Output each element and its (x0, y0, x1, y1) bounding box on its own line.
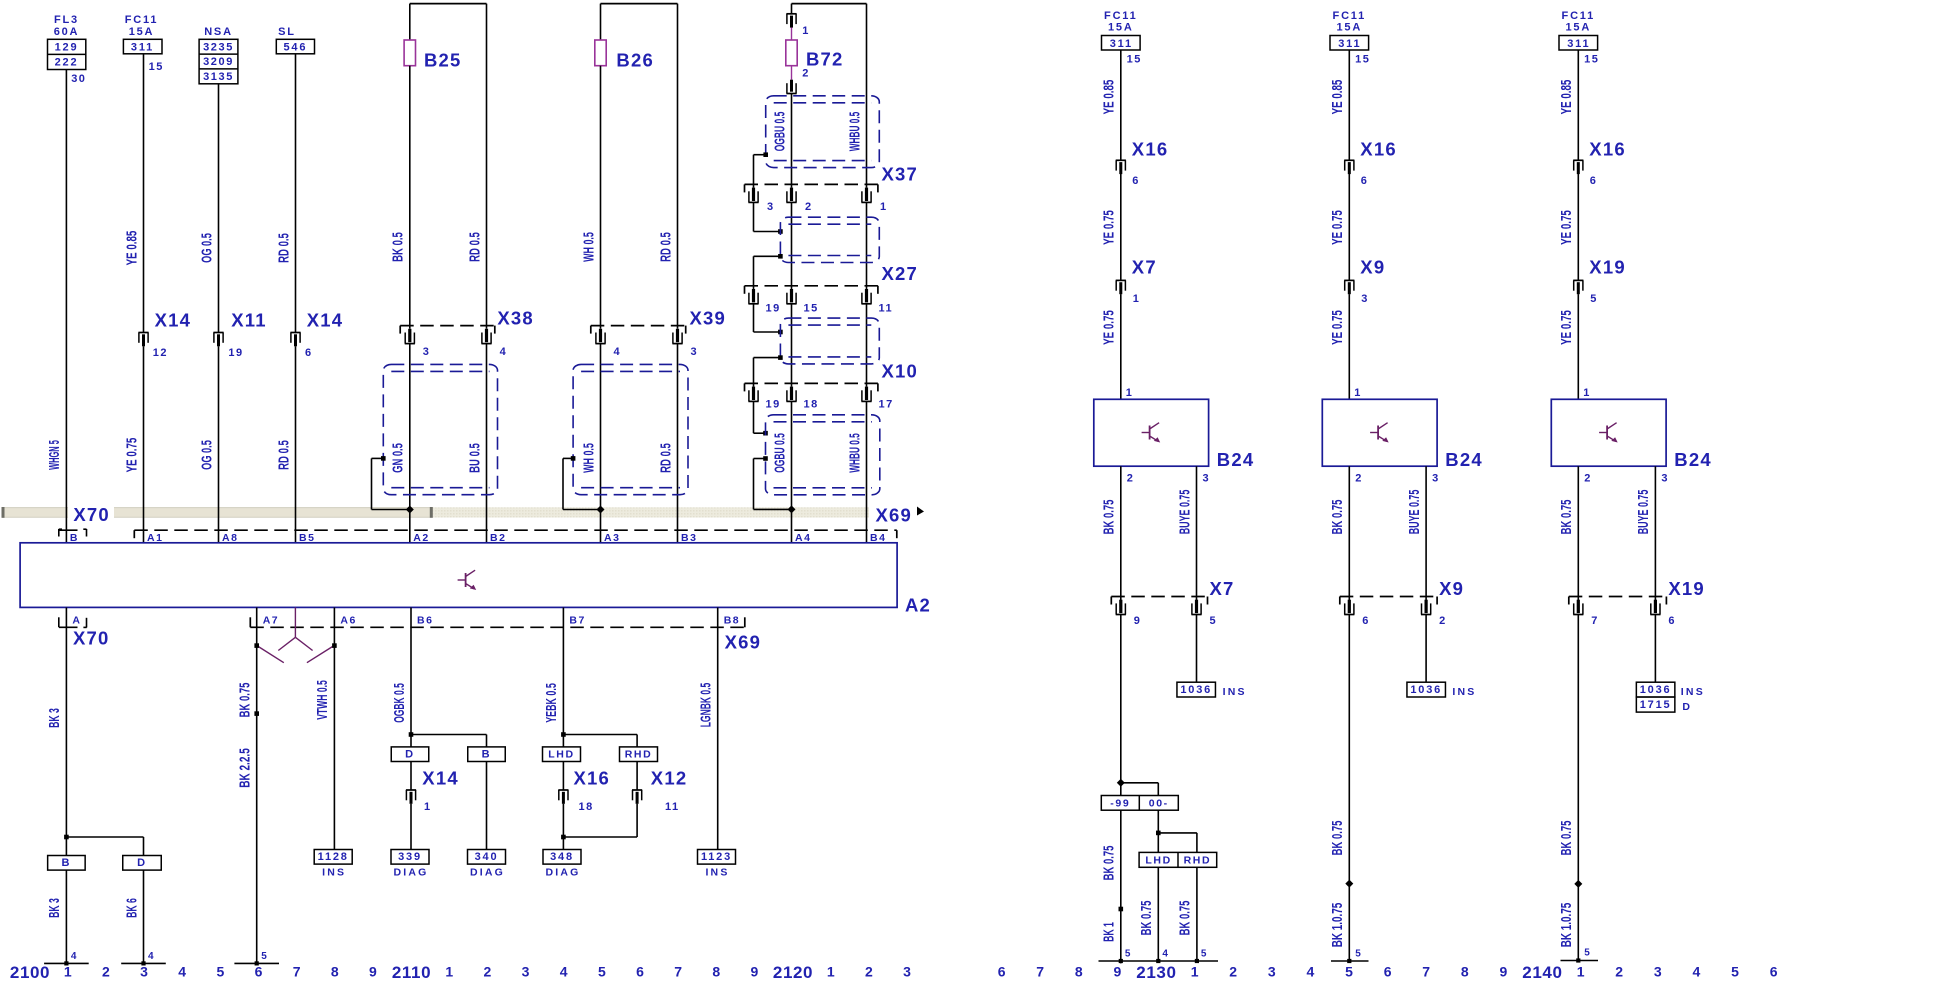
svg-text:WH 0.5: WH 0.5 (580, 443, 597, 473)
svg-text:19: 19 (766, 303, 781, 315)
svg-text:X69: X69 (876, 504, 913, 525)
svg-text:00-: 00- (1149, 798, 1169, 810)
svg-text:8: 8 (331, 964, 340, 980)
svg-text:OG 0.5: OG 0.5 (198, 440, 215, 470)
svg-text:11: 11 (665, 801, 680, 813)
svg-text:5: 5 (1125, 949, 1132, 960)
svg-text:BUYE 0.75: BUYE 0.75 (1176, 490, 1193, 535)
svg-text:DIAG: DIAG (545, 867, 580, 879)
svg-text:2: 2 (1584, 473, 1592, 485)
svg-text:7: 7 (674, 964, 683, 980)
svg-text:VTWH 0.5: VTWH 0.5 (314, 680, 331, 720)
svg-text:2110: 2110 (392, 963, 431, 982)
svg-text:YE 0.85: YE 0.85 (1558, 80, 1575, 115)
svg-text:BK 0.75: BK 0.75 (1177, 901, 1194, 936)
svg-text:1715: 1715 (1640, 699, 1672, 711)
svg-text:1: 1 (1354, 387, 1362, 399)
svg-text:3: 3 (767, 201, 775, 213)
svg-text:9: 9 (1500, 964, 1509, 980)
svg-text:INS: INS (705, 867, 729, 879)
svg-text:19: 19 (228, 347, 243, 359)
svg-text:DIAG: DIAG (470, 867, 505, 879)
svg-text:348: 348 (550, 851, 574, 863)
svg-text:3209: 3209 (203, 56, 234, 68)
svg-text:OGBK 0.5: OGBK 0.5 (391, 683, 408, 723)
svg-text:BK 0.5: BK 0.5 (390, 232, 407, 262)
svg-text:B24: B24 (1445, 449, 1483, 470)
svg-text:3: 3 (1661, 473, 1669, 485)
svg-text:311: 311 (1110, 38, 1133, 50)
svg-text:NSA: NSA (204, 26, 233, 38)
svg-text:X19: X19 (1668, 578, 1705, 599)
svg-text:1: 1 (880, 201, 888, 213)
svg-text:A: A (72, 615, 81, 627)
svg-text:X39: X39 (690, 308, 727, 329)
svg-text:3: 3 (522, 964, 531, 980)
svg-text:18: 18 (804, 399, 819, 411)
svg-text:RHD: RHD (625, 749, 653, 761)
svg-text:YE 0.75: YE 0.75 (123, 438, 140, 473)
svg-text:B6: B6 (417, 615, 433, 627)
svg-text:D: D (405, 749, 415, 761)
svg-text:FL3: FL3 (54, 14, 79, 26)
svg-text:2120: 2120 (773, 963, 813, 982)
svg-text:3135: 3135 (203, 71, 234, 83)
svg-text:4: 4 (500, 346, 508, 358)
svg-text:8: 8 (712, 964, 721, 980)
svg-text:4: 4 (1307, 964, 1316, 980)
svg-text:X70: X70 (73, 504, 110, 525)
svg-text:15A: 15A (1566, 21, 1592, 33)
svg-text:B8: B8 (724, 615, 740, 627)
svg-text:6: 6 (1590, 175, 1598, 187)
svg-text:6: 6 (1361, 175, 1369, 187)
svg-text:FC11: FC11 (1104, 10, 1138, 22)
svg-text:BK 2.2.5: BK 2.2.5 (237, 748, 254, 788)
svg-text:3235: 3235 (203, 41, 234, 53)
svg-text:RD 0.5: RD 0.5 (275, 440, 292, 470)
svg-text:D: D (137, 857, 147, 869)
svg-text:3: 3 (423, 346, 431, 358)
svg-text:340: 340 (475, 851, 499, 863)
svg-text:15: 15 (804, 303, 819, 315)
svg-text:2140: 2140 (1522, 963, 1562, 982)
svg-text:2: 2 (1615, 964, 1624, 980)
svg-text:6: 6 (255, 964, 264, 980)
svg-text:BUYE 0.75: BUYE 0.75 (1406, 490, 1423, 535)
svg-text:30: 30 (71, 73, 86, 85)
svg-text:YEBK 0.5: YEBK 0.5 (543, 683, 560, 723)
svg-text:BU 0.5: BU 0.5 (466, 443, 483, 473)
svg-text:9: 9 (1134, 615, 1142, 627)
svg-text:311: 311 (131, 42, 154, 54)
svg-text:1036: 1036 (1640, 684, 1672, 696)
svg-text:3: 3 (1203, 473, 1211, 485)
svg-text:2: 2 (802, 68, 810, 80)
svg-text:BK 0.75: BK 0.75 (1138, 901, 1155, 936)
svg-text:LGNBK 0.5: LGNBK 0.5 (698, 683, 715, 728)
svg-text:B26: B26 (616, 50, 654, 71)
svg-text:1: 1 (1126, 387, 1134, 399)
svg-text:6: 6 (1668, 615, 1676, 627)
svg-text:15A: 15A (1337, 21, 1363, 33)
svg-text:19: 19 (766, 399, 781, 411)
svg-text:18: 18 (579, 801, 594, 813)
svg-text:3: 3 (140, 964, 149, 980)
svg-text:RD 0.5: RD 0.5 (275, 233, 292, 263)
svg-text:YE 0.75: YE 0.75 (1101, 310, 1118, 345)
svg-text:YE 0.75: YE 0.75 (1558, 310, 1575, 345)
svg-text:7: 7 (1036, 964, 1045, 980)
svg-text:2: 2 (1127, 473, 1135, 485)
svg-text:BK 0.75: BK 0.75 (1329, 821, 1346, 856)
svg-text:15: 15 (149, 61, 164, 73)
svg-text:5: 5 (1590, 293, 1598, 305)
svg-text:YE 0.75: YE 0.75 (1558, 210, 1575, 245)
svg-text:2: 2 (1229, 964, 1238, 980)
svg-text:4: 4 (560, 964, 569, 980)
svg-text:YE 0.75: YE 0.75 (1101, 210, 1118, 245)
svg-text:1036: 1036 (1410, 684, 1442, 696)
svg-text:3: 3 (1268, 964, 1277, 980)
svg-text:A6: A6 (340, 615, 356, 627)
svg-text:1: 1 (802, 25, 810, 37)
svg-text:2: 2 (1439, 615, 1447, 627)
svg-text:15A: 15A (1108, 21, 1134, 33)
svg-text:X10: X10 (882, 360, 919, 381)
svg-text:X16: X16 (1360, 139, 1397, 160)
svg-text:9: 9 (1114, 964, 1123, 980)
svg-text:A2: A2 (905, 595, 931, 616)
svg-text:1: 1 (445, 964, 454, 980)
svg-text:5: 5 (598, 964, 607, 980)
svg-text:INS: INS (1681, 686, 1705, 698)
svg-text:311: 311 (1338, 38, 1361, 50)
svg-text:2: 2 (805, 201, 813, 213)
svg-text:5: 5 (1584, 948, 1591, 959)
svg-text:BK 0.75: BK 0.75 (1558, 500, 1575, 535)
svg-text:X7: X7 (1132, 257, 1157, 278)
svg-text:D: D (1682, 701, 1692, 713)
svg-text:1036: 1036 (1180, 684, 1212, 696)
svg-text:A7: A7 (263, 615, 279, 627)
svg-text:222: 222 (55, 57, 79, 69)
svg-text:B25: B25 (424, 50, 462, 71)
svg-text:BK 0.75: BK 0.75 (1329, 500, 1346, 535)
svg-text:OG 0.5: OG 0.5 (198, 233, 215, 263)
svg-text:1: 1 (64, 964, 73, 980)
svg-text:BK 1.0.75: BK 1.0.75 (1558, 903, 1575, 948)
svg-text:15: 15 (1584, 54, 1599, 66)
svg-text:12: 12 (153, 347, 168, 359)
svg-text:311: 311 (1567, 38, 1590, 50)
svg-text:1: 1 (1583, 387, 1591, 399)
svg-text:7: 7 (1591, 615, 1599, 627)
svg-text:X69: X69 (725, 631, 762, 652)
svg-text:LHD: LHD (1145, 855, 1171, 867)
svg-text:YE 0.85: YE 0.85 (1329, 80, 1346, 115)
svg-text:6: 6 (305, 347, 313, 359)
svg-text:1128: 1128 (318, 851, 349, 863)
svg-text:339: 339 (398, 851, 422, 863)
svg-text:3: 3 (1654, 964, 1663, 980)
svg-text:4: 4 (71, 951, 78, 962)
svg-text:1: 1 (827, 964, 836, 980)
svg-text:RHD: RHD (1184, 855, 1212, 867)
svg-text:B24: B24 (1217, 449, 1255, 470)
svg-text:FC11: FC11 (1562, 10, 1596, 22)
svg-text:BK 3: BK 3 (46, 898, 63, 918)
svg-text:1: 1 (1577, 964, 1586, 980)
svg-text:15: 15 (1355, 54, 1370, 66)
svg-text:5: 5 (1345, 964, 1354, 980)
svg-text:X9: X9 (1439, 578, 1464, 599)
svg-text:2: 2 (102, 964, 111, 980)
svg-text:8: 8 (1075, 964, 1084, 980)
svg-text:BK 1: BK 1 (1101, 922, 1118, 942)
svg-text:BK 0.75: BK 0.75 (1558, 821, 1575, 856)
svg-text:X70: X70 (73, 628, 110, 649)
svg-text:FC11: FC11 (1333, 10, 1367, 22)
svg-text:X16: X16 (1132, 139, 1169, 160)
svg-text:GN 0.5: GN 0.5 (390, 443, 407, 473)
svg-text:4: 4 (1162, 949, 1169, 960)
svg-text:INS: INS (1223, 686, 1247, 698)
svg-text:BK 0.75: BK 0.75 (1101, 500, 1118, 535)
svg-text:X38: X38 (497, 308, 534, 329)
svg-text:9: 9 (369, 964, 378, 980)
svg-text:BK 1.0.75: BK 1.0.75 (1329, 903, 1346, 948)
svg-text:X11: X11 (231, 310, 267, 331)
svg-text:2100: 2100 (10, 963, 50, 982)
svg-text:6: 6 (636, 964, 645, 980)
svg-text:1: 1 (424, 801, 432, 813)
svg-text:-99: -99 (1110, 798, 1130, 810)
svg-text:4: 4 (148, 951, 155, 962)
svg-text:X16: X16 (1589, 139, 1626, 160)
svg-text:X14: X14 (155, 310, 192, 331)
svg-text:4: 4 (1693, 964, 1702, 980)
svg-text:7: 7 (1422, 964, 1431, 980)
svg-text:4: 4 (178, 964, 187, 980)
svg-text:WHBU 0.5: WHBU 0.5 (846, 433, 863, 473)
svg-text:X12: X12 (651, 768, 688, 789)
svg-text:BK 3: BK 3 (46, 708, 63, 728)
svg-text:11: 11 (879, 303, 894, 315)
svg-text:X27: X27 (882, 263, 919, 284)
svg-text:B7: B7 (569, 615, 585, 627)
svg-text:YE 0.85: YE 0.85 (123, 231, 140, 266)
svg-text:546: 546 (284, 42, 308, 54)
svg-text:5: 5 (1201, 949, 1208, 960)
svg-text:3: 3 (903, 964, 912, 980)
svg-text:15A: 15A (129, 26, 155, 38)
svg-text:6: 6 (1132, 175, 1140, 187)
svg-text:X16: X16 (574, 768, 611, 789)
svg-text:DIAG: DIAG (393, 867, 428, 879)
svg-text:5: 5 (261, 951, 268, 962)
svg-text:B: B (62, 857, 72, 869)
svg-text:5: 5 (1210, 615, 1218, 627)
svg-text:WHBU 0.5: WHBU 0.5 (846, 112, 863, 152)
svg-text:OGBU 0.5: OGBU 0.5 (771, 112, 788, 152)
svg-text:BK 0.75: BK 0.75 (237, 683, 254, 718)
svg-text:B24: B24 (1674, 449, 1712, 470)
svg-text:INS: INS (1452, 686, 1476, 698)
svg-text:5: 5 (1355, 949, 1362, 960)
svg-text:WHGN 5: WHGN 5 (46, 440, 63, 470)
svg-text:RD 0.5: RD 0.5 (657, 232, 674, 262)
svg-text:BK 0.75: BK 0.75 (1101, 846, 1118, 881)
svg-text:5: 5 (1731, 964, 1740, 980)
svg-text:1: 1 (1133, 293, 1141, 305)
svg-text:6: 6 (1362, 615, 1370, 627)
svg-text:X7: X7 (1210, 578, 1235, 599)
svg-text:8: 8 (1461, 964, 1470, 980)
svg-text:FC11: FC11 (125, 14, 159, 26)
svg-text:1123: 1123 (701, 851, 732, 863)
svg-text:X14: X14 (422, 768, 459, 789)
svg-text:SL: SL (278, 26, 296, 38)
svg-text:4: 4 (614, 346, 622, 358)
svg-text:6: 6 (1770, 964, 1779, 980)
svg-text:129: 129 (55, 42, 79, 54)
svg-text:YE 0.75: YE 0.75 (1329, 310, 1346, 345)
svg-text:3: 3 (1361, 293, 1369, 305)
svg-text:2: 2 (865, 964, 874, 980)
svg-text:2: 2 (484, 964, 493, 980)
svg-text:2: 2 (1355, 473, 1363, 485)
svg-text:X19: X19 (1589, 257, 1626, 278)
svg-text:X37: X37 (882, 164, 919, 185)
svg-text:15: 15 (1127, 54, 1142, 66)
svg-text:X14: X14 (307, 310, 344, 331)
svg-text:6: 6 (998, 964, 1007, 980)
svg-text:YE 0.85: YE 0.85 (1101, 80, 1118, 115)
svg-text:BUYE 0.75: BUYE 0.75 (1635, 490, 1652, 535)
svg-text:WH 0.5: WH 0.5 (580, 232, 597, 262)
svg-text:X9: X9 (1360, 257, 1385, 278)
svg-text:B72: B72 (806, 49, 844, 70)
svg-text:2130: 2130 (1136, 963, 1176, 982)
svg-text:INS: INS (322, 867, 346, 879)
svg-text:BK 6: BK 6 (123, 898, 140, 918)
svg-text:7: 7 (293, 964, 302, 980)
svg-text:60A: 60A (54, 26, 80, 38)
svg-text:17: 17 (879, 399, 894, 411)
svg-text:9: 9 (751, 964, 760, 980)
svg-text:5: 5 (216, 964, 225, 980)
svg-text:B: B (482, 749, 492, 761)
svg-text:6: 6 (1384, 964, 1393, 980)
svg-text:LHD: LHD (548, 749, 574, 761)
svg-text:1: 1 (1191, 964, 1200, 980)
svg-text:3: 3 (1432, 473, 1440, 485)
svg-text:OGBU 0.5: OGBU 0.5 (771, 433, 788, 473)
svg-text:YE 0.75: YE 0.75 (1329, 210, 1346, 245)
svg-text:RD 0.5: RD 0.5 (466, 232, 483, 262)
svg-text:3: 3 (691, 346, 699, 358)
svg-text:RD 0.5: RD 0.5 (657, 443, 674, 473)
